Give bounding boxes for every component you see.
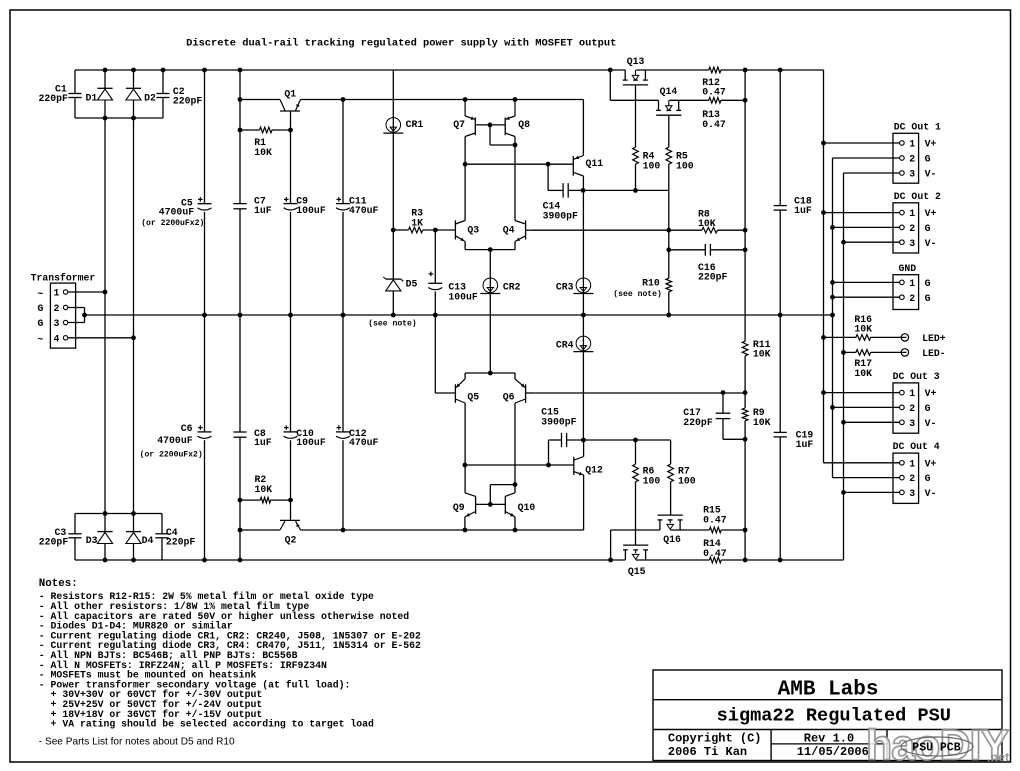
wire Q11 emitter node to R4 R5 — [583, 189, 669, 191]
transistor Q12 — [574, 457, 603, 476]
wire DC1 pin3 — [844, 172, 900, 174]
svg-text:220pF: 220pF — [173, 96, 203, 107]
wire CR4 node to R6 R7 — [583, 439, 670, 441]
diode D2 — [126, 88, 156, 103]
transformer — [31, 272, 96, 348]
wire C9-C10 column — [290, 111, 292, 520]
svg-text:V-: V- — [925, 169, 937, 180]
transistor Q6 — [503, 379, 526, 403]
svg-text:220pF: 220pF — [698, 272, 728, 283]
capacitor C18 — [774, 195, 812, 216]
wire DC1 pin1 — [824, 142, 900, 144]
wire Q11 emitter to CR3-CR4 column — [582, 176, 584, 440]
capacitor C3 — [39, 527, 82, 548]
svg-text:0.47: 0.47 — [703, 548, 727, 559]
svg-text:.net: .net — [987, 751, 1010, 765]
svg-text:1uF: 1uF — [796, 439, 814, 450]
wire C3 column — [74, 514, 76, 561]
junction dots C16 line — [666, 247, 747, 252]
resistor R9 — [742, 407, 770, 428]
wire transformer pin4 to D2 column — [68, 337, 134, 339]
wire Q2 collector to column 240 — [240, 529, 280, 531]
svg-text:Q1: Q1 — [284, 89, 296, 100]
wire CR2 column — [489, 250, 491, 373]
svg-text:Copyright (C): Copyright (C) — [668, 732, 762, 746]
wire R5 bottom leg — [668, 164, 670, 190]
svg-text:D2: D2 — [144, 93, 156, 104]
resistor R12 — [702, 67, 726, 97]
svg-text:G: G — [925, 293, 931, 304]
capacitor C16 — [698, 244, 728, 283]
svg-text:3: 3 — [909, 169, 915, 180]
svg-text:3900pF: 3900pF — [543, 211, 578, 222]
svg-text:D1: D1 — [86, 93, 98, 104]
wire Q8-Q4 collector column — [514, 137, 516, 221]
pad LED+ — [901, 333, 946, 344]
mosfet Q16 — [658, 515, 683, 545]
junction dots Q11 emitter line — [581, 188, 638, 193]
transistor Q2 — [280, 520, 301, 545]
transistor Q4 — [503, 220, 526, 241]
wire C2 column — [162, 70, 164, 118]
wire Q6 base to V- sense line — [536, 392, 745, 394]
svg-text:D4: D4 — [142, 535, 154, 546]
wire C14 right to Q11 emitter node — [568, 189, 583, 191]
title text — [186, 37, 616, 49]
svg-text:0.47: 0.47 — [702, 119, 726, 130]
svg-text:1: 1 — [909, 139, 915, 150]
current regulating diode CR1 — [383, 118, 423, 134]
svg-text:3900pF: 3900pF — [541, 416, 576, 427]
wire Q7-Q3 collector column — [464, 137, 466, 221]
svg-text:Q4: Q4 — [503, 225, 515, 236]
svg-text:220pF: 220pF — [166, 537, 196, 548]
svg-text:Q15: Q15 — [628, 566, 646, 577]
svg-text:100: 100 — [643, 475, 661, 486]
svg-text:G: G — [38, 303, 44, 314]
svg-text:Q3: Q3 — [467, 225, 479, 236]
svg-text:G: G — [925, 473, 931, 484]
svg-text:(or 2200uFx2): (or 2200uFx2) — [141, 219, 204, 228]
wire Q10 emitter leg — [514, 517, 516, 530]
svg-text:2: 2 — [909, 403, 915, 414]
junction dots R1 line — [238, 128, 293, 133]
wire bottom bus Q15 to R14 — [636, 559, 710, 561]
wire C16 line right — [710, 249, 745, 251]
resistor R1 — [254, 127, 272, 158]
title block frame — [653, 670, 1002, 761]
svg-text:1: 1 — [54, 288, 60, 299]
svg-text:100uF: 100uF — [296, 437, 326, 448]
capacitor C9 — [284, 196, 326, 216]
wire DC3 pin2 — [833, 406, 900, 408]
junction dots Q2 emitter rail — [238, 528, 748, 533]
capacitor C2 — [156, 86, 202, 107]
wire raw V- bottom bus (left segment) — [75, 559, 625, 561]
svg-text:1: 1 — [909, 458, 915, 469]
capacitor C10 — [284, 425, 326, 448]
svg-text:10K: 10K — [753, 417, 771, 428]
capacitor C11 — [336, 196, 379, 216]
svg-text:(see note): (see note) — [368, 320, 417, 329]
svg-text:10K: 10K — [854, 368, 872, 379]
svg-text:4700uF: 4700uF — [159, 207, 194, 218]
svg-text:Q10: Q10 — [518, 502, 536, 513]
svg-text:11/05/2006: 11/05/2006 — [797, 745, 869, 759]
wire R6 top leg — [635, 440, 637, 464]
svg-text:3: 3 — [54, 318, 60, 329]
svg-text:R10: R10 — [642, 277, 660, 288]
wire Q5-Q6 emitter tail — [465, 373, 515, 379]
svg-text:220pF: 220pF — [39, 537, 69, 548]
wire Q1 emitter rail to Q11 — [301, 100, 584, 156]
wire Q5 base to ground column — [435, 315, 455, 393]
wire Q14 source row to R13 — [669, 99, 709, 101]
wire Q9-Q10 base tie to Q10 collector — [490, 485, 515, 505]
resistor R6 — [633, 464, 661, 486]
svg-text:470uF: 470uF — [349, 205, 379, 216]
transistor Q10 — [505, 493, 535, 517]
resistor R4 — [633, 147, 661, 171]
svg-text:Q9: Q9 — [453, 502, 465, 513]
wire Q7-Q8 base to Q8 collector — [490, 125, 515, 145]
wire DC3 pin1 — [824, 392, 900, 394]
title block date — [797, 745, 869, 759]
svg-text:G: G — [38, 318, 44, 329]
transistor Q3 — [455, 220, 479, 241]
capacitor C8 — [233, 428, 271, 448]
wire Q6 base stub — [526, 392, 536, 394]
connector DC Out 2 — [893, 191, 941, 253]
connector DC Out 1 — [893, 121, 941, 183]
wire top bus R12 to V+ corner — [721, 70, 824, 143]
capacitor C19 — [774, 429, 814, 450]
svg-text:Q2: Q2 — [285, 535, 297, 546]
svg-text:~: ~ — [38, 334, 44, 345]
title block sigma22 Regulated PSU — [717, 706, 951, 727]
diode D4 — [126, 532, 154, 547]
capacitor C12 — [336, 425, 379, 448]
wire raw V+ top bus (middle segment to R12) — [636, 69, 709, 71]
wire Q2 emitter rail to Q12 — [301, 529, 584, 531]
wire R8 to V+ sense column — [717, 229, 745, 231]
connector GND — [893, 263, 931, 310]
wire DC4 pin3 — [844, 491, 900, 493]
wire DC3 pin3 — [844, 421, 900, 423]
wire R14 to V- corner — [721, 492, 843, 560]
svg-text:3: 3 — [909, 238, 915, 249]
resistor R17 — [854, 350, 872, 379]
svg-text:(or 2200uFx2): (or 2200uFx2) — [140, 451, 203, 460]
svg-text:10K: 10K — [753, 349, 771, 360]
wire raw V+ top bus (left segment) — [75, 69, 625, 71]
junction dots Q11 base line — [463, 162, 551, 167]
svg-text:Notes:: Notes: — [39, 578, 78, 590]
svg-text:2: 2 — [909, 154, 915, 165]
transistor Q8 — [505, 100, 530, 137]
svg-text:10K: 10K — [698, 218, 716, 229]
svg-text:V+: V+ — [925, 458, 937, 469]
wire Q16 source row to R15 — [670, 529, 709, 531]
note label see note (D5) — [368, 320, 417, 329]
wire R3 to Q3 base — [423, 229, 456, 231]
wire R7 top leg — [670, 440, 672, 464]
wire R17 to LED- pad — [871, 351, 907, 353]
wire Q9 base row — [465, 464, 574, 466]
zener diode D5 — [383, 277, 417, 291]
wire Q7 collector line to Q11 base — [465, 163, 573, 165]
junction dots top bus — [103, 68, 783, 73]
diode D3 — [86, 532, 113, 547]
wire R7 bottom to Q16 gate — [670, 482, 672, 515]
svg-text:- See Parts List for notes abo: - See Parts List for notes about D5 and … — [39, 737, 235, 748]
pad LED- — [901, 348, 945, 359]
wire R2 line — [240, 499, 291, 501]
title block revision — [804, 731, 854, 745]
svg-text:4: 4 — [54, 333, 60, 344]
svg-text:Q8: Q8 — [518, 119, 530, 130]
svg-text:4700uF: 4700uF — [157, 435, 192, 446]
wire DC4 pin1 — [824, 462, 900, 464]
svg-text:PSU PCB: PSU PCB — [912, 742, 960, 755]
svg-text:100: 100 — [678, 475, 696, 486]
svg-text:DC Out 1: DC Out 1 — [894, 121, 941, 132]
svg-text:V+: V+ — [925, 208, 937, 219]
junction dots R3 line — [391, 228, 438, 233]
junction dots Q1 rail — [238, 97, 518, 102]
capacitor C4 — [155, 527, 195, 548]
wire R16 to LED+ pad — [871, 336, 907, 338]
current regulating diode CR4 — [556, 336, 594, 352]
wire R1 line — [240, 129, 291, 131]
wire Q5-Q9 collector column — [464, 403, 466, 493]
junction dots V+ distribution — [821, 141, 826, 395]
wire DC2 pin2 — [833, 226, 900, 228]
connector DC Out 3 — [893, 371, 940, 433]
capacitor C13 — [428, 272, 478, 303]
capacitor C7 — [233, 196, 271, 216]
notes text block — [39, 578, 421, 748]
svg-text:CR4: CR4 — [556, 340, 574, 351]
transistor Q7 — [453, 100, 475, 137]
wire C5-C6 column — [204, 70, 206, 560]
svg-text:V-: V- — [925, 238, 937, 249]
title block AMB Labs — [778, 678, 879, 701]
watermark haodiy.net — [866, 722, 1010, 770]
junction dots R2 line — [238, 498, 293, 503]
svg-text:1uF: 1uF — [254, 437, 272, 448]
resistor R13 — [702, 98, 726, 130]
wire C7-C8 column — [239, 70, 241, 560]
svg-text:2: 2 — [909, 473, 915, 484]
transistor Q5 — [455, 379, 479, 403]
svg-text:220pF: 220pF — [39, 93, 69, 104]
svg-text:Q16: Q16 — [663, 534, 681, 545]
svg-text:2: 2 — [54, 303, 60, 314]
wire R4 bottom leg — [635, 164, 637, 190]
wire Q4 base stub — [526, 229, 531, 231]
wire R5 node down through R8 C16 to R10 — [668, 190, 670, 278]
wire R16 line from V+ bus — [824, 336, 856, 338]
wire Q3-Q4 emitter tail — [465, 242, 515, 250]
svg-text:100: 100 — [676, 160, 694, 171]
svg-text:G: G — [925, 154, 931, 165]
wire C18-C19 column — [779, 70, 781, 560]
junction dots C1 rail — [103, 116, 136, 121]
svg-text:2006 Ti Kan: 2006 Ti Kan — [668, 745, 747, 759]
svg-text:Q6: Q6 — [503, 391, 515, 402]
svg-text:DC Out 2: DC Out 2 — [894, 191, 941, 202]
capacitor C14 — [543, 183, 578, 221]
wire R15 to V+ sense column — [721, 529, 745, 531]
wire C17 bottom stub — [723, 419, 745, 440]
svg-text:Q12: Q12 — [585, 465, 603, 476]
svg-text:0.47: 0.47 — [703, 515, 727, 526]
title block PSU PCB — [901, 737, 973, 756]
svg-text:CR2: CR2 — [503, 282, 521, 293]
wire DC1 pin2 — [833, 157, 900, 159]
resistor R11 — [742, 339, 770, 360]
junction dots Q9 base row — [463, 463, 551, 468]
svg-text:100uF: 100uF — [448, 291, 478, 302]
wire D2 column — [133, 70, 135, 560]
svg-text:V-: V- — [925, 488, 937, 499]
svg-text:1uF: 1uF — [794, 205, 812, 216]
svg-text:Q5: Q5 — [467, 391, 479, 402]
wire R10 bottom leg — [668, 292, 670, 315]
mosfet Q14 — [656, 86, 681, 115]
capacitor C5 — [141, 197, 211, 228]
transistor Q1 — [280, 89, 301, 112]
svg-text:0.47: 0.47 — [702, 87, 726, 98]
wire C14 left leg — [548, 164, 563, 190]
transistor Q11 — [573, 156, 603, 177]
mosfet Q13 — [623, 56, 648, 85]
svg-text:1: 1 — [909, 208, 915, 219]
svg-text:Discrete dual-rail tracking re: Discrete dual-rail tracking regulated po… — [186, 37, 616, 49]
resistor R8 — [698, 208, 717, 233]
svg-text:C6: C6 — [181, 423, 193, 434]
junction dots G distribution — [830, 225, 835, 410]
wire Q9 emitter leg — [464, 517, 466, 530]
wire Q16 drain row — [611, 530, 660, 560]
svg-text:Transformer: Transformer — [31, 272, 96, 283]
wire Q12 collector leg — [583, 440, 585, 457]
svg-text:2: 2 — [909, 223, 915, 234]
wire transformer pin1 to D1 column — [68, 291, 105, 293]
svg-text:10K: 10K — [854, 324, 872, 335]
wire C3-D3-D4-C4 top rail — [75, 513, 162, 515]
wire C1 column — [74, 70, 76, 118]
wire transformer pin2 bracket — [68, 308, 85, 323]
svg-text:DC Out 3: DC Out 3 — [893, 371, 940, 382]
wire V+ distribution bus — [823, 143, 825, 463]
svg-text:Q7: Q7 — [453, 119, 465, 130]
wire ground bus — [85, 314, 833, 316]
svg-text:10K: 10K — [255, 484, 273, 495]
wire Q14 gate to R5 — [668, 115, 670, 147]
junction dots transformer taps — [103, 290, 136, 341]
svg-text:DC Out 4: DC Out 4 — [893, 441, 940, 452]
junction dot Q10 collector — [513, 482, 518, 487]
resistor R15 — [703, 505, 727, 533]
wire C17 top stub — [722, 393, 724, 413]
capacitor C17 — [683, 407, 730, 428]
wire Q9-Q10 base tie bar — [476, 503, 506, 505]
svg-text:100: 100 — [643, 160, 661, 171]
svg-text:G: G — [925, 223, 931, 234]
wire DC4 pin2 — [833, 477, 900, 479]
svg-text:GND: GND — [899, 263, 917, 274]
junction dots bottom bus — [103, 558, 783, 563]
resistor R3 — [409, 208, 424, 233]
svg-text:1: 1 — [909, 278, 915, 289]
wire C4 column — [161, 514, 163, 561]
resistor R16 — [854, 314, 872, 340]
capacitor C1 — [39, 84, 82, 104]
svg-text:~: ~ — [38, 288, 44, 299]
junction dot R13 node — [743, 98, 748, 103]
resistor R5 — [666, 147, 694, 171]
wire Q12 emitter leg — [583, 475, 585, 530]
svg-text:G: G — [925, 403, 931, 414]
resistor R7 — [668, 464, 696, 486]
svg-text:100uF: 100uF — [296, 205, 326, 216]
wire R13 to V+ sense column — [721, 99, 745, 101]
capacitor C6 — [140, 423, 212, 460]
wire G distribution bus — [832, 158, 834, 478]
svg-text:2: 2 — [909, 293, 915, 304]
svg-text:Q14: Q14 — [660, 86, 678, 97]
svg-text:220pF: 220pF — [683, 417, 713, 428]
junction dots LED lines — [821, 335, 846, 355]
wire C1-D1-D2-C2 bottom rail — [75, 117, 163, 119]
svg-text:D3: D3 — [86, 535, 98, 546]
wire R6 bottom to Q15 gate — [635, 482, 637, 545]
wire V+ sense column — [744, 70, 746, 560]
resistor R10 — [613, 277, 671, 299]
svg-text:CR3: CR3 — [556, 282, 574, 293]
svg-text:Q11: Q11 — [586, 158, 604, 169]
wire CR1-D5 column — [392, 70, 394, 315]
wire Q6-Q10 collector column — [514, 403, 516, 493]
junction dots diff pair tails — [488, 247, 493, 375]
wire transformer pin3 bracket — [68, 322, 85, 324]
wire CR1 node to R3 — [393, 229, 408, 231]
wire C11-C12 column — [342, 100, 344, 531]
wire C15 right to CR4 node — [567, 439, 584, 441]
svg-text:Q13: Q13 — [627, 56, 645, 67]
svg-text:V+: V+ — [925, 139, 937, 150]
junction dots V- sense line — [721, 390, 748, 395]
svg-text:AMB Labs: AMB Labs — [778, 678, 879, 701]
svg-text:10K: 10K — [254, 147, 272, 158]
capacitor C15 — [541, 407, 576, 448]
junction dots ground bus — [82, 313, 835, 318]
wire V- distribution bus — [843, 173, 845, 492]
resistor R2 — [255, 474, 273, 503]
transistor Q9 — [453, 493, 476, 517]
svg-text:V+: V+ — [925, 388, 937, 399]
wire D1 column — [104, 70, 106, 560]
mosfet Q15 — [623, 545, 648, 577]
junction dots Q7 Q8 mirror — [488, 123, 518, 148]
wire C13 column — [434, 230, 436, 315]
wire Q7-Q8 base tie — [475, 124, 505, 126]
svg-text:1uF: 1uF — [254, 205, 272, 216]
junction dot Q9-Q10 base tie — [488, 502, 493, 507]
svg-text:D5: D5 — [406, 279, 418, 290]
